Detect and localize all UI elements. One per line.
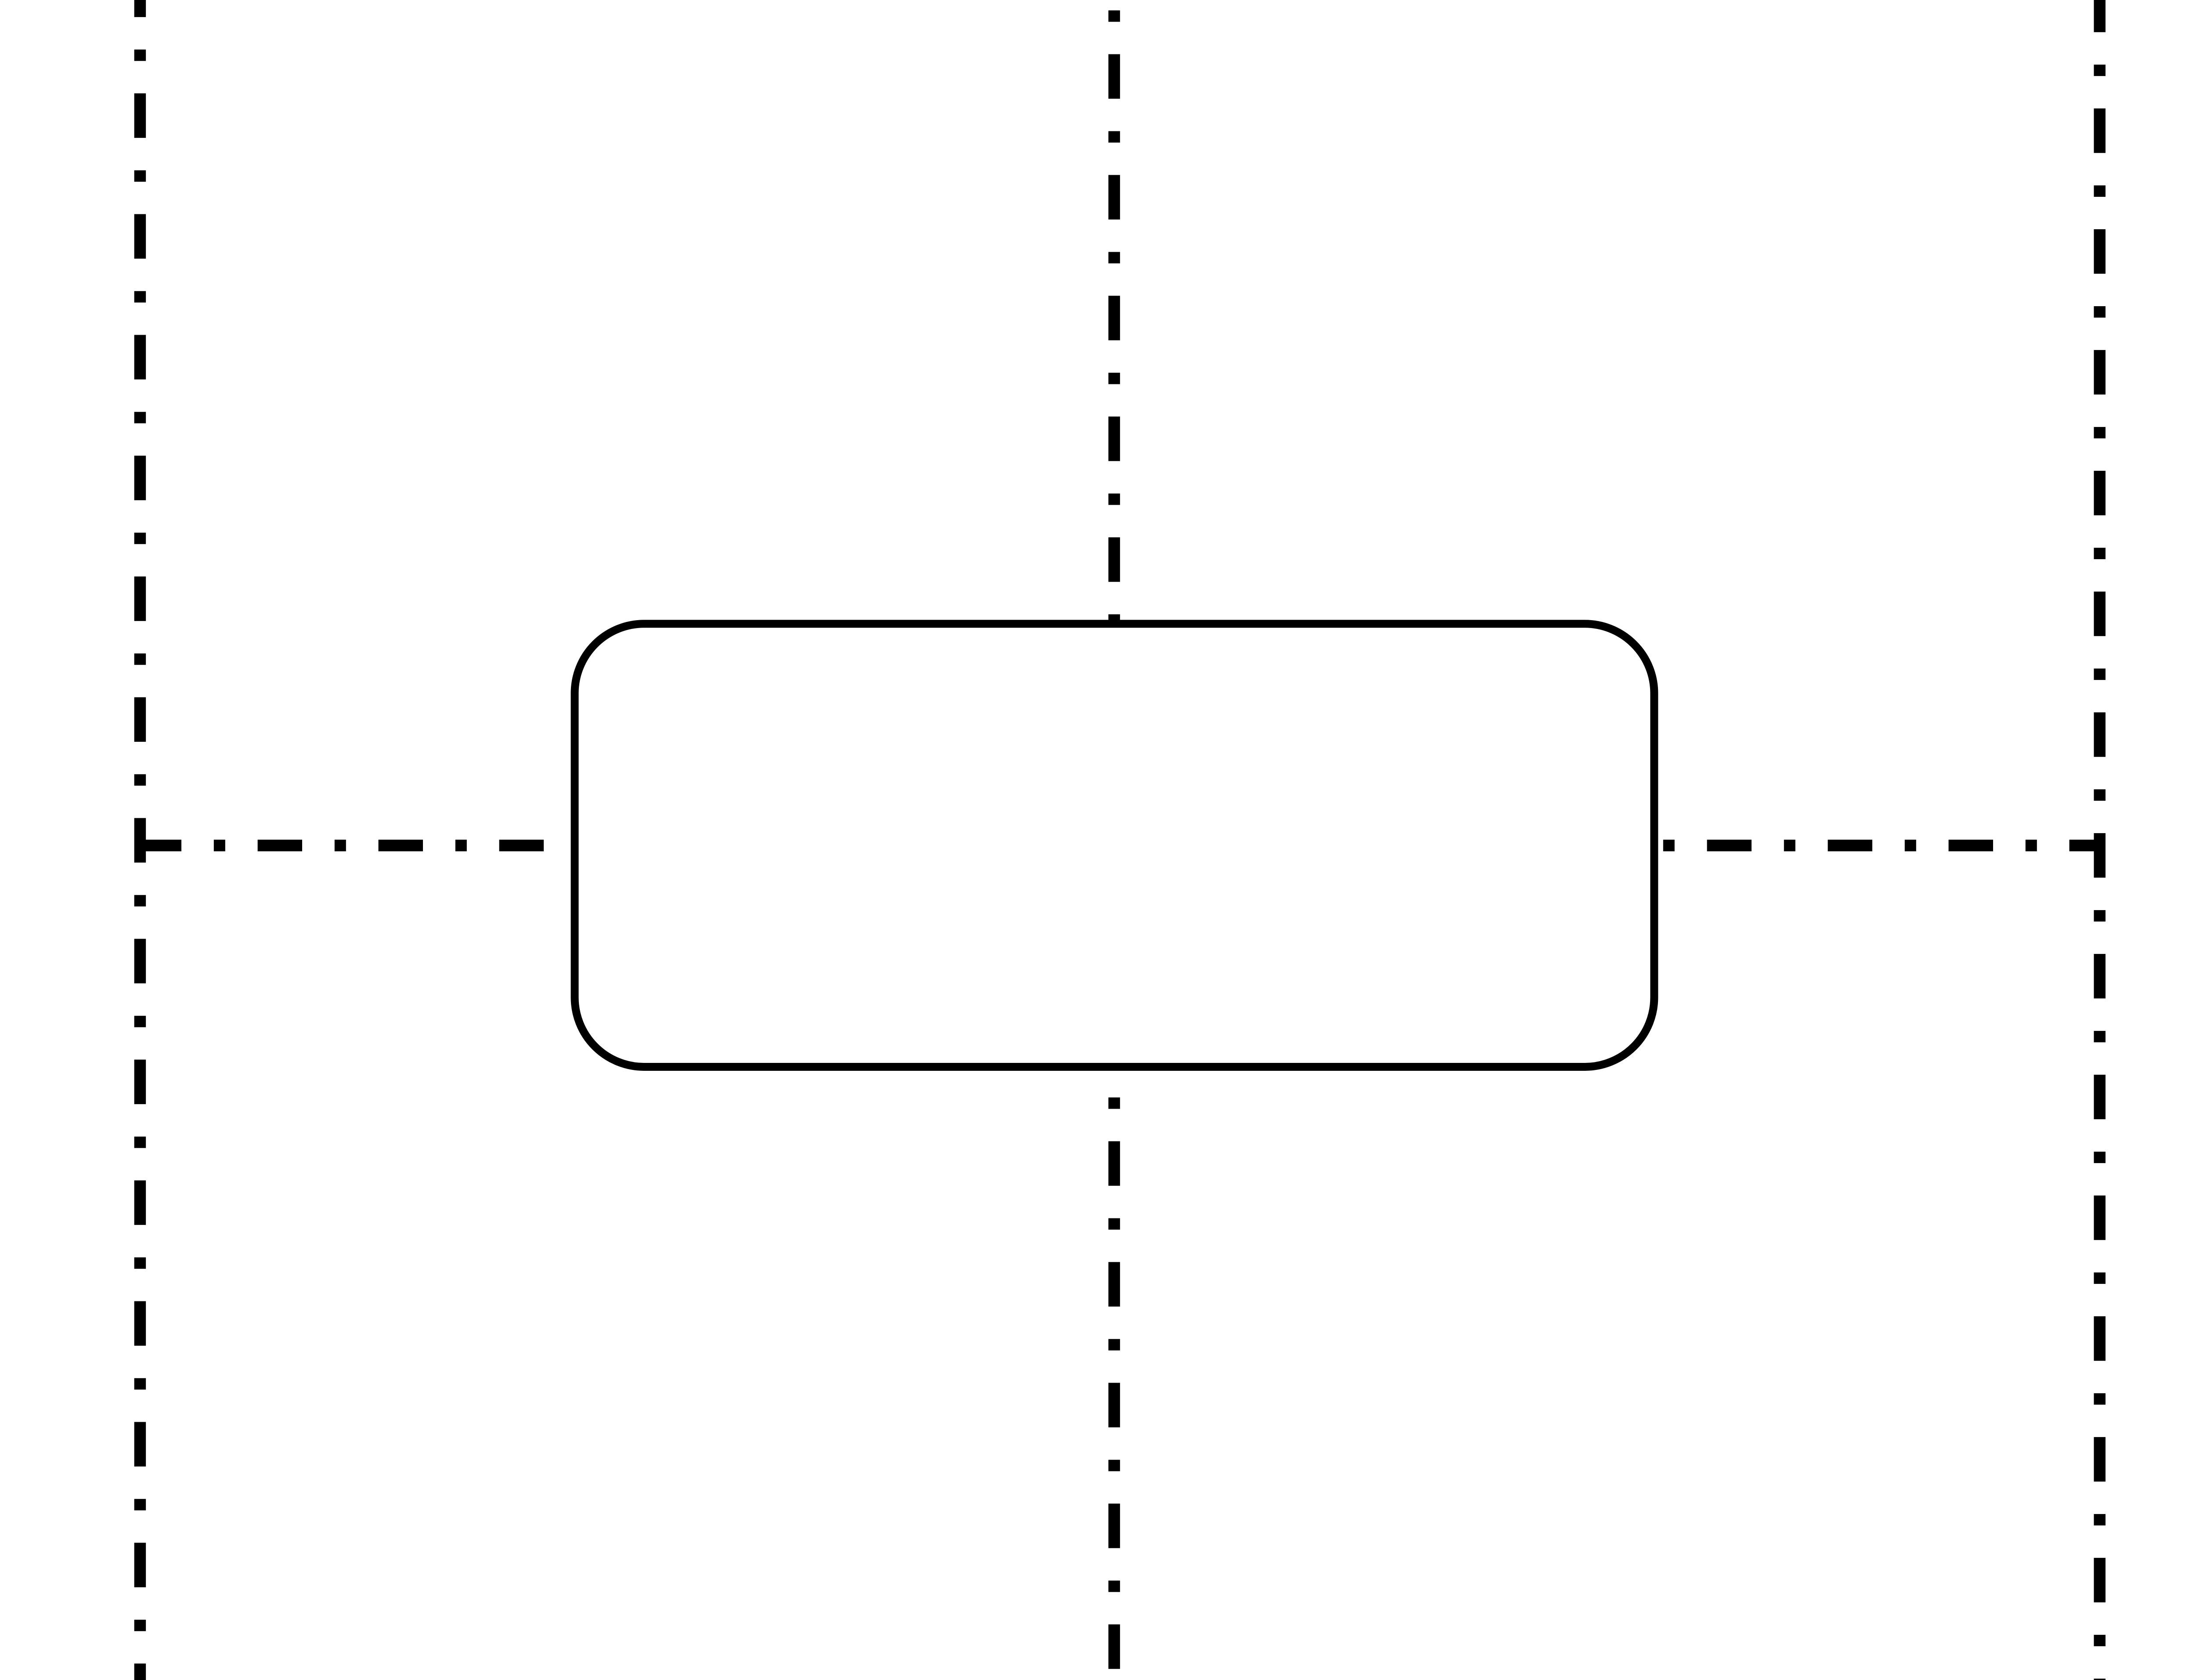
center vertical dash-dot section line [1109, 0, 1120, 1680]
rounded rectangle block [575, 624, 1654, 1067]
left vertical dash-dot section line [134, 0, 146, 1680]
right vertical dash-dot section line [2094, 0, 2106, 1680]
horizontal dash-dot section line [137, 840, 2104, 852]
